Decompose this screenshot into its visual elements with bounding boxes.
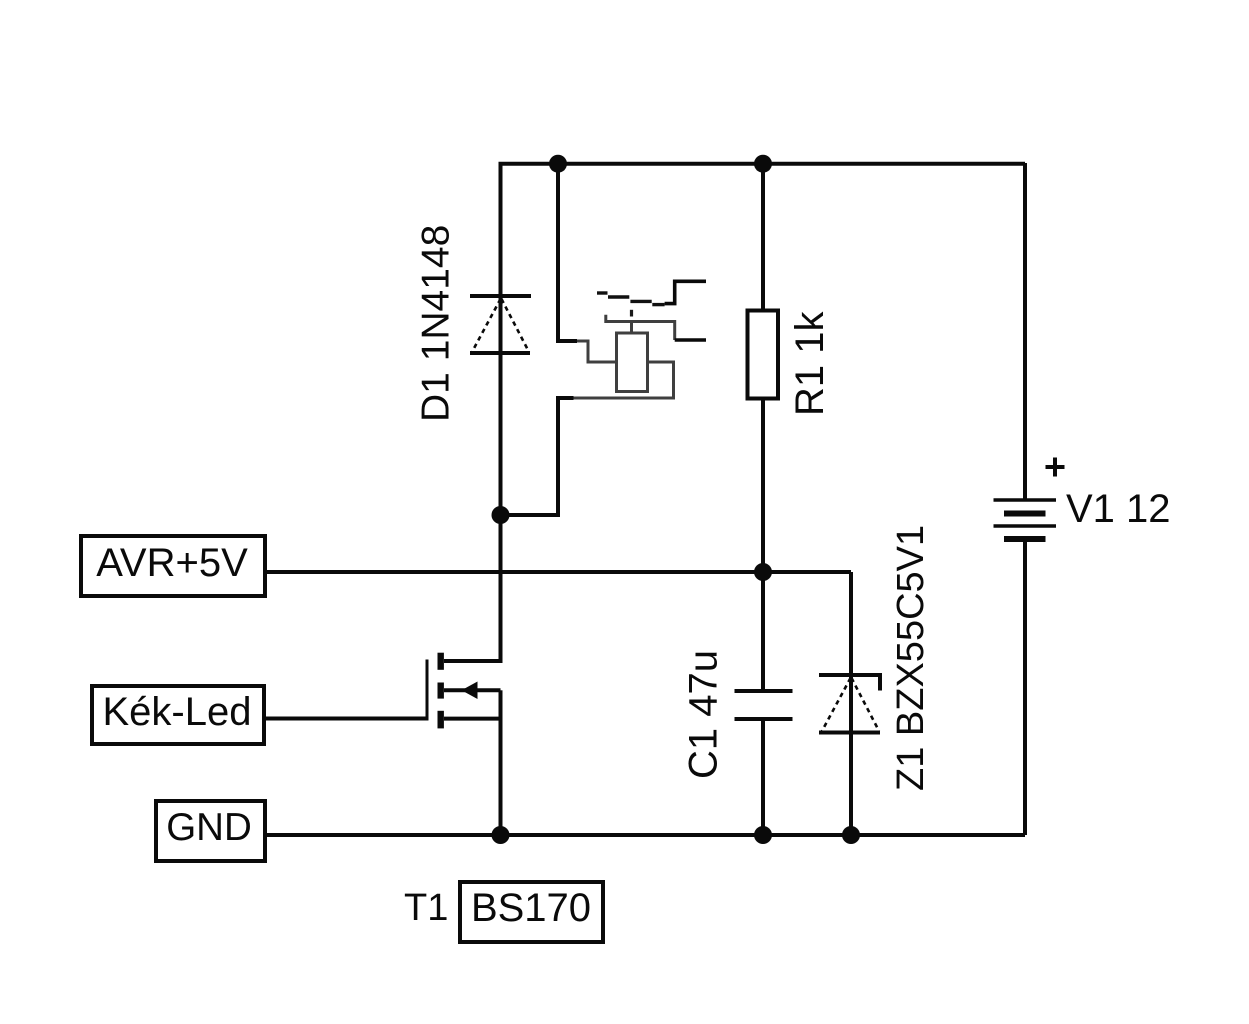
wire: battery - to GND rail — [1023, 542, 1027, 835]
wire: AVR+5V net — [265, 570, 851, 574]
wire: relay coil pin 2 return to node A — [501, 398, 574, 515]
wire: +12V top rail with left corner down to D1 cathode — [501, 164, 1026, 296]
node label Kék-Led — [92, 686, 264, 744]
wire: top rail to R1 — [761, 163, 765, 311]
wire: Z1 anode to GND rail — [849, 675, 853, 835]
label box BS170 — [460, 882, 603, 942]
wire: Kék-Led to T1 gate — [264, 717, 427, 721]
svg-text:GND: GND — [166, 806, 252, 849]
battery V1 — [994, 500, 1057, 539]
svg-text:C1 47u: C1 47u — [682, 650, 726, 779]
wire: battery + to top rail — [1023, 163, 1027, 500]
junction: node A (D1 / relay return / T1 drain) — [492, 506, 510, 524]
label R1 1k — [788, 311, 832, 416]
svg-text:AVR+5V: AVR+5V — [96, 541, 248, 585]
svg-text:BS170: BS170 — [471, 886, 591, 930]
junction: +5V / R1 / C1 — [754, 563, 772, 581]
zener diode Z1 — [819, 675, 880, 733]
svg-text:Z1 BZX55C5V1: Z1 BZX55C5V1 — [890, 525, 932, 791]
capacitor C1 — [735, 572, 793, 719]
svg-text:Kék-Led: Kék-Led — [103, 690, 252, 734]
wire: C1 bottom to GND rail — [761, 719, 765, 835]
transistor T1 N-MOSFET — [427, 653, 501, 729]
battery plus marking — [1046, 458, 1065, 477]
svg-text:D1 1N4148: D1 1N4148 — [415, 225, 458, 422]
wire: T1 source to GND rail — [499, 719, 503, 835]
relay K1 coil (gray symbol body) — [574, 322, 674, 399]
label T1 — [404, 887, 448, 929]
node label GND — [156, 801, 265, 861]
relay contact pin stub (upper) — [665, 281, 706, 303]
junction: top rail / relay coil branch — [549, 155, 567, 173]
label C1 47u — [682, 650, 726, 779]
relay switch blade (stepped dashes) — [597, 293, 665, 305]
label Z1 BZX55C5V1 — [890, 525, 932, 791]
wire: node A to T1 drain — [499, 515, 503, 661]
junction: GND / Z1 — [842, 826, 860, 844]
relay mechanical linkage dash — [630, 310, 633, 317]
wire: R1 bottom to +5V node — [761, 398, 765, 572]
wire: GND rail — [265, 833, 1025, 837]
label D1 1N4148 — [415, 225, 458, 422]
junction: top rail / R1 branch — [754, 155, 772, 173]
wire: relay coil pin 1 from top rail junction — [558, 163, 577, 341]
wire: D1 anode down to node A — [499, 296, 503, 515]
relay armature bar (gray) — [606, 315, 675, 340]
diode D1 1N4148 — [470, 296, 531, 353]
wire: +5V net to Z1 cathode — [849, 572, 853, 675]
svg-text:V1 12: V1 12 — [1066, 487, 1171, 531]
label V1 12 — [1066, 487, 1171, 531]
svg-text:R1 1k: R1 1k — [788, 311, 832, 416]
svg-text:T1: T1 — [404, 887, 448, 929]
node label AVR+5V — [81, 536, 265, 596]
junction: GND / C1 — [754, 826, 772, 844]
resistor R1 — [748, 311, 779, 399]
relay contact pin stub (lower) — [675, 338, 706, 342]
junction: GND / T1 source — [492, 826, 510, 844]
